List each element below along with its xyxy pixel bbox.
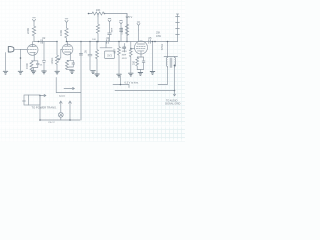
node bus junction x81: [80, 41, 82, 43]
decorative scan band: [0, 124, 185, 128]
tube V3 pentode: [131, 41, 148, 57]
node heater rail dot: [69, 119, 71, 121]
wire rail right: [98, 14, 127, 42]
svg-text:10W: 10W: [156, 35, 162, 38]
node bus junction x97: [96, 41, 98, 43]
resistor R5 field coil: [125, 14, 128, 42]
node rail-arrow junction: [174, 90, 176, 92]
svg-text:5Y3: 5Y3: [107, 53, 112, 57]
node grid leak tap: [130, 48, 131, 49]
svg-text:FIELD: FIELD: [121, 27, 124, 34]
heater arrow A: [59, 101, 62, 112]
ground C3: [91, 71, 96, 74]
svg-text:SPKR: SPKR: [161, 43, 164, 50]
wire OT left down: [158, 68, 168, 85]
node bus junction x98: [97, 41, 99, 43]
wire rail left end: [89, 13, 93, 15]
wiper arrow: [58, 49, 62, 60]
wire cathode join: [32, 68, 34, 71]
svg-text:1500: 1500: [25, 63, 29, 69]
capacitor C2 25MF to ground: [43, 42, 46, 71]
wire grid return: [21, 49, 28, 70]
transformer OT primary winding: [166, 57, 167, 68]
wire pot bottom to heater loop: [56, 64, 58, 71]
node heater tap dot: [120, 84, 122, 86]
resistor R6 grid leak: [129, 42, 132, 73]
wire cathode V1: [32, 60, 38, 62]
wire OT primary drop: [167, 42, 169, 57]
node beam dot: [152, 41, 154, 43]
wire plate V1 to coupling cap: [34, 41, 58, 43]
transformer OT core: [170, 58, 172, 68]
ground beam: [150, 72, 155, 75]
wire bottom rail: [115, 90, 175, 92]
node wire-pot junction: [56, 41, 58, 43]
wire OT right down: [174, 68, 176, 91]
svg-text:450V: 450V: [122, 58, 128, 60]
heater loop top: [56, 42, 82, 121]
wire jack sleeve ground: [5, 53, 7, 71]
ground C2: [42, 71, 47, 74]
capacitor C4 filter: [118, 42, 121, 74]
svg-text:8MF: 8MF: [122, 55, 127, 57]
resistor Rk2 cathode: [66, 60, 69, 69]
node B+ arrow x138: [137, 22, 140, 30]
capacitor C3 to ground: [88, 42, 92, 71]
node grid junction: [20, 57, 22, 59]
svg-text:325 V: 325 V: [126, 15, 133, 19]
wire screen feed: [138, 30, 140, 42]
input jack J1: [8, 47, 20, 52]
svg-text:220K: 220K: [26, 28, 30, 34]
wire PT arrow right: [41, 94, 46, 96]
ground cathode V2: [70, 71, 75, 74]
capacitor C9 filter chain B: [108, 19, 112, 42]
tube V1 triode: [21, 42, 39, 61]
wire heater tap: [113, 76, 129, 88]
svg-text:6.3 V: 6.3 V: [59, 95, 65, 98]
resistor R1 plate 220K: [32, 26, 35, 42]
lamp pilot: [58, 112, 63, 120]
svg-text:TO POWER TRANS.: TO POWER TRANS.: [32, 106, 57, 110]
node PT top dot: [39, 95, 41, 97]
capacitor C7 tone 0.05: [149, 40, 151, 44]
svg-text:10K: 10K: [92, 39, 96, 41]
wire bottom heater rail: [40, 119, 80, 121]
node rail dot left: [39, 119, 41, 121]
wire plate V2: [67, 41, 68, 43]
heater arrow B: [69, 101, 72, 120]
node bus junction x90.5: [89, 41, 91, 43]
node B+ arrow V2: [65, 19, 68, 28]
wire beam plates ground: [152, 42, 154, 71]
resistor R4 rail 10K: [92, 12, 104, 15]
capacitor C5 filter small: [123, 44, 126, 53]
wire cathode V2: [67, 59, 73, 61]
node bus junction x119: [118, 41, 120, 43]
svg-text:.02: .02: [42, 36, 46, 40]
resistor Rk3 cathode: [136, 57, 141, 70]
ground grid return: [18, 71, 23, 74]
ground cathode V1: [31, 71, 36, 74]
transformer PT box: [23, 95, 41, 105]
capacitor Ck1 bypass: [34, 61, 40, 68]
svg-text:8MF: 8MF: [114, 48, 117, 53]
svg-text:8MF: 8MF: [122, 48, 127, 50]
svg-text:100K: 100K: [59, 30, 63, 36]
capacitor C10 filter chain C: [120, 21, 123, 42]
potentiometer VOL 1M: [56, 42, 59, 65]
node junction plate V1: [38, 41, 40, 43]
node bus junction x127: [126, 41, 128, 43]
svg-text:250: 250: [133, 60, 136, 65]
node bus junction x66.5: [66, 41, 68, 43]
node rail dot: [88, 13, 90, 15]
decorative veil: [0, 0, 185, 142]
svg-text:SIGNAL GRID: SIGNAL GRID: [165, 103, 181, 106]
wire arrow to label: [173, 91, 176, 97]
ground grid leak: [129, 73, 134, 76]
node bus junction x155: [154, 41, 156, 43]
wire OT connector: [164, 56, 178, 58]
tube V2 triode: [61, 42, 73, 61]
resistor R2 plate 100K: [65, 28, 68, 42]
ground filter caps: [117, 74, 122, 77]
svg-text:6.3 V to htrs.: 6.3 V to htrs.: [125, 82, 139, 85]
resistor Rk1 cathode: [30, 61, 33, 70]
capacitor C6 coupling 0.02: [107, 40, 109, 44]
rectifier block box: [100, 42, 115, 59]
transformer OT secondary winding: [175, 57, 176, 68]
ground jack: [3, 71, 8, 74]
capacitor Ck3 bypass: [137, 57, 145, 70]
svg-text:.02: .02: [106, 36, 110, 40]
capacitor Ck2 bypass: [69, 60, 75, 67]
wire cathode join V2: [67, 69, 73, 71]
node B+ arrow V1: [32, 18, 35, 26]
ground mid: [95, 42, 100, 77]
capacitor C1 0.02 coupling: [41, 40, 43, 44]
wire PT down: [39, 96, 41, 121]
svg-text:10K: 10K: [96, 8, 101, 12]
wire signal bus: [68, 41, 178, 43]
svg-text:.05: .05: [148, 36, 152, 40]
node OT dots: [167, 41, 169, 43]
capacitor C8 filter chain A: [96, 17, 99, 42]
svg-text:450V: 450V: [122, 51, 128, 53]
svg-text:8MF: 8MF: [111, 27, 113, 32]
wire heater arrow mid: [64, 87, 75, 89]
speaker voice coil line: [176, 14, 180, 42]
wire cathode down V3: [139, 70, 141, 72]
ground cathode V3: [138, 73, 143, 76]
node speaker dot: [174, 65, 176, 67]
svg-text:1MEG: 1MEG: [51, 57, 54, 64]
